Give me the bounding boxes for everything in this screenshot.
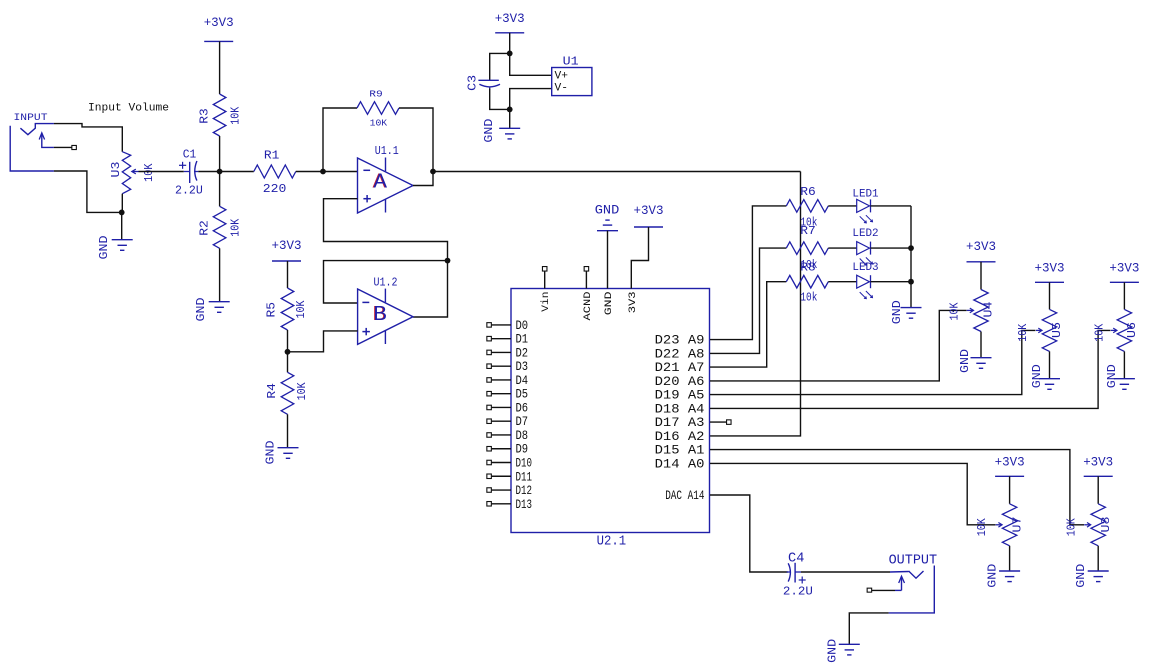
- svg-text:GND: GND: [98, 235, 111, 259]
- resistor R6 element: [786, 200, 828, 213]
- label R4 GND: [265, 440, 278, 464]
- resistor R7 element: [786, 242, 828, 255]
- wire input tip to pot: [54, 124, 122, 152]
- wire pin D5: [492, 393, 511, 395]
- power +3V3 above U5: [1035, 262, 1065, 283]
- label U1 V+ pin: [555, 70, 569, 82]
- label U3 name: [110, 161, 123, 177]
- svg-text:GND: GND: [265, 440, 278, 464]
- svg-text:GND: GND: [1031, 364, 1044, 388]
- label R5 name: [266, 302, 279, 318]
- svg-text:D23 A9: D23 A9: [655, 333, 705, 348]
- wire B inverting feedback: [324, 261, 448, 303]
- pin square input switch: [72, 145, 77, 149]
- diode LED3 element: [857, 275, 873, 299]
- label R4 value 10K: [296, 382, 309, 400]
- label pin D16 A2: [655, 429, 705, 444]
- label pin D22 A8: [655, 346, 705, 361]
- label pin D18 A4: [655, 401, 705, 416]
- power +3V3 above R3: [204, 16, 234, 41]
- ground U7 GND symbol: [999, 571, 1020, 582]
- svg-text:R4: R4: [266, 383, 279, 399]
- svg-text:V+: V+: [555, 70, 569, 82]
- svg-text:INPUT: INPUT: [14, 112, 48, 124]
- power +3V3 above ic: [634, 204, 664, 227]
- svg-text:D4: D4: [516, 373, 529, 388]
- svg-text:R5: R5: [266, 302, 279, 318]
- wire 3V3 to U6: [1123, 282, 1125, 309]
- connector J2 OUTPUT label: [889, 554, 938, 569]
- wire pin D1: [492, 338, 511, 340]
- label opamp B letter: [373, 302, 387, 325]
- ic GND symbol above: [597, 220, 618, 231]
- pin square D5: [487, 391, 492, 396]
- svg-text:U1.2: U1.2: [374, 277, 398, 290]
- label pin D13: [516, 497, 533, 512]
- label U2.1 designator: [597, 535, 627, 550]
- svg-text:3V3: 3V3: [627, 292, 639, 314]
- connector J1 INPUT label: [14, 112, 48, 124]
- capacitor C4 element: [787, 563, 806, 584]
- label pin D10: [516, 456, 533, 471]
- svg-text:D5: D5: [516, 387, 529, 402]
- resistor R2 element: [213, 206, 226, 248]
- wire U4 to ground: [980, 332, 982, 358]
- pin square D10: [487, 460, 492, 465]
- label pin D11: [516, 469, 533, 484]
- wire ic GND pin: [607, 231, 609, 289]
- wire R7 to LED2: [828, 247, 856, 249]
- label U6 name: [1126, 322, 1139, 338]
- label R2 GND: [195, 297, 208, 321]
- svg-text:D6: D6: [516, 400, 529, 415]
- wire R8 to LED3: [828, 281, 856, 283]
- svg-text:+3V3: +3V3: [1083, 456, 1113, 470]
- label R3 value 10K: [229, 107, 242, 125]
- label pin D15 A1: [655, 443, 705, 458]
- pin square D8: [487, 433, 492, 438]
- wire V+ pin: [510, 53, 552, 75]
- label Vin pin: [540, 292, 552, 312]
- svg-text:+3V3: +3V3: [634, 204, 664, 218]
- power +3V3 above U8: [1083, 456, 1113, 477]
- svg-text:R3: R3: [199, 108, 212, 124]
- wire pin D7: [492, 420, 511, 422]
- wire pin D6: [492, 406, 511, 408]
- wire R9 right vertical: [399, 108, 433, 172]
- svg-text:2.2U: 2.2U: [175, 185, 203, 198]
- svg-text:D19 A5: D19 A5: [655, 388, 705, 403]
- svg-text:R9: R9: [369, 90, 383, 100]
- ground input GND symbol: [112, 240, 133, 251]
- ground R4 GND symbol: [278, 448, 299, 459]
- potentiometer U6 wiper arrow: [1111, 328, 1117, 333]
- pin square D3: [487, 364, 492, 369]
- svg-text:U2.1: U2.1: [597, 535, 627, 550]
- label pin D20 A6: [655, 374, 705, 389]
- svg-text:D13: D13: [516, 497, 533, 512]
- wire Vin pin: [544, 271, 546, 288]
- wire pot U3 bottom: [121, 194, 123, 213]
- capacitor C4 label: [788, 551, 804, 566]
- wire pin D8: [492, 434, 511, 436]
- wire B output feedback vertical: [413, 261, 448, 317]
- svg-text:LED3: LED3: [852, 262, 878, 274]
- ground U5 GND symbol: [1039, 379, 1060, 390]
- svg-text:+3V3: +3V3: [495, 12, 525, 26]
- svg-text:D7: D7: [516, 414, 529, 429]
- ground C3 GND symbol: [499, 128, 520, 139]
- wire A1 to U8 wiper: [710, 450, 1084, 525]
- wire output sleeve to ground: [849, 613, 888, 644]
- label R6 name: [800, 186, 816, 199]
- wire LED cathode bus: [910, 206, 912, 308]
- label R3 name: [199, 108, 212, 124]
- pin square D7: [487, 419, 492, 424]
- wire input switch stub: [54, 146, 72, 148]
- wire pin D12: [492, 489, 511, 491]
- power +3V3 above R5: [272, 239, 302, 261]
- wire pin D2: [492, 351, 511, 353]
- svg-text:R7: R7: [800, 225, 816, 238]
- label U7 GND: [987, 564, 1000, 588]
- wire node to R2: [219, 172, 221, 207]
- wire U6 to ground: [1123, 351, 1125, 378]
- wire pin D10: [492, 462, 511, 464]
- svg-text:U4: U4: [983, 301, 996, 317]
- wire ACND pin: [585, 271, 587, 288]
- svg-text:10K: 10K: [1017, 324, 1030, 342]
- wire output switch stub: [872, 589, 902, 591]
- svg-text:U6: U6: [1126, 322, 1139, 338]
- svg-text:Vin: Vin: [540, 292, 552, 312]
- label R5 value 10K: [295, 300, 308, 318]
- potentiometer U6 element: [1117, 309, 1131, 351]
- label LED1 name: [852, 188, 879, 200]
- svg-text:U5: U5: [1051, 322, 1064, 338]
- potentiometer U4 wiper arrow: [967, 308, 974, 313]
- label pin D6: [516, 400, 529, 415]
- op-amp U1.1 triangle: [358, 158, 414, 214]
- op-amp U1.2 triangle: [358, 289, 413, 345]
- pin square D1: [487, 336, 492, 341]
- wire R2 to ground: [219, 248, 221, 301]
- svg-text:10K: 10K: [296, 382, 309, 400]
- capacitor C3 element: [478, 80, 500, 89]
- svg-text:10K: 10K: [143, 163, 156, 182]
- svg-text:GND: GND: [595, 204, 620, 218]
- wire U7 to ground: [1009, 546, 1011, 571]
- wire pin D13: [492, 503, 511, 505]
- resistor R8 element: [786, 275, 828, 288]
- pin square D13: [487, 502, 492, 507]
- wire A3 stub: [710, 421, 726, 423]
- label U4 value 10K: [949, 302, 962, 320]
- wire A6 to U4 wiper: [710, 310, 967, 381]
- potentiometer U4 element: [974, 290, 988, 332]
- wire pin D9: [492, 448, 511, 450]
- wire ic 3V3 pin: [631, 227, 648, 289]
- node C3 bottom junction: [507, 107, 513, 113]
- label pin D4: [516, 373, 529, 388]
- pin square Vin: [542, 267, 547, 272]
- potentiometer U3 element: [122, 152, 130, 194]
- svg-text:C4: C4: [788, 551, 804, 566]
- resistor R3 element: [213, 94, 226, 136]
- label pin D1: [516, 332, 529, 347]
- label pin D23 A9: [655, 333, 705, 348]
- label U1 V- pin: [555, 82, 569, 94]
- wire R4 to ground: [287, 414, 289, 447]
- svg-text:GND: GND: [959, 349, 972, 373]
- label U5 name: [1051, 322, 1064, 338]
- wire C3 node to ground: [509, 109, 511, 128]
- wire opamp A output: [413, 172, 433, 186]
- connector J1 input jack symbol: [10, 124, 54, 171]
- resistor R1 element: [254, 165, 296, 178]
- svg-text:D0: D0: [516, 318, 529, 333]
- svg-text:10K: 10K: [295, 300, 308, 318]
- text Input Volume heading: [88, 103, 169, 115]
- svg-text:GND: GND: [195, 297, 208, 321]
- label ic 3V3 pin name: [627, 292, 639, 314]
- label U3 value 10K: [143, 163, 156, 182]
- pin square D12: [487, 488, 492, 493]
- svg-text:R8: R8: [800, 261, 816, 274]
- label LED3 name: [852, 262, 878, 274]
- svg-text:10K: 10K: [229, 219, 242, 237]
- label R1 value 220: [263, 183, 287, 196]
- svg-text:+3V3: +3V3: [966, 240, 996, 254]
- label pin D7: [516, 414, 529, 429]
- svg-text:OUTPUT: OUTPUT: [889, 554, 938, 569]
- pin square D2: [487, 350, 492, 355]
- wire A4 to U6 wiper: [710, 330, 1111, 408]
- wire node to C3: [490, 53, 510, 80]
- svg-text:GND: GND: [603, 292, 615, 316]
- label R1 name: [264, 150, 280, 163]
- capacitor C1 element: [179, 161, 198, 183]
- label input GND: [98, 235, 111, 259]
- pin square D4: [487, 378, 492, 383]
- label ic GND pin name: [603, 292, 615, 316]
- wire pin D0: [492, 324, 511, 326]
- svg-text:D1: D1: [516, 332, 529, 347]
- node R1-R9-opamp junction: [320, 169, 326, 175]
- label R8 name: [800, 261, 816, 274]
- svg-text:GND: GND: [827, 639, 840, 663]
- diode LED1 element: [857, 199, 873, 223]
- pin square D6: [487, 405, 492, 410]
- svg-text:GND: GND: [1106, 364, 1119, 388]
- label C1 value 2.2U: [175, 185, 203, 198]
- ground output GND symbol: [839, 644, 860, 655]
- potentiometer U5 element: [1042, 309, 1056, 351]
- power +3V3 above U4: [966, 240, 996, 262]
- power block U1 box: [552, 68, 592, 96]
- potentiometer U3 wiper arrow: [132, 169, 139, 174]
- wire input sleeve to ground node: [54, 171, 122, 212]
- wire R6 to LED1: [828, 205, 856, 207]
- ground U8 GND symbol: [1088, 571, 1109, 582]
- wire pin D11: [492, 475, 511, 477]
- label pin D8: [516, 428, 529, 443]
- wire U8 to ground: [1097, 546, 1099, 571]
- svg-text:220: 220: [263, 183, 287, 196]
- svg-text:D9: D9: [516, 442, 529, 457]
- power +3V3 above C3: [495, 12, 525, 33]
- power +3V3 above U6: [1109, 262, 1139, 283]
- wire LED1 cathode to bus: [871, 205, 912, 207]
- svg-text:+3V3: +3V3: [204, 16, 234, 30]
- svg-text:A: A: [373, 170, 387, 193]
- wire node to R1: [220, 171, 254, 173]
- svg-text:D14 A0: D14 A0: [655, 456, 705, 471]
- wire R9 left vertical: [323, 108, 357, 172]
- label output GND: [827, 639, 840, 663]
- potentiometer U8 element: [1091, 504, 1105, 546]
- svg-text:10K: 10K: [1093, 324, 1106, 342]
- label pin D0: [516, 318, 529, 333]
- label pin D2: [516, 345, 529, 360]
- svg-text:D17 A3: D17 A3: [655, 415, 705, 430]
- label R2 name: [199, 220, 212, 236]
- wire A8 to R7: [710, 248, 786, 353]
- ground LED GND symbol: [901, 308, 922, 319]
- svg-text:10K: 10K: [1065, 518, 1078, 536]
- label R9 name: [369, 90, 383, 100]
- wire R5 to node: [287, 330, 289, 352]
- svg-text:R1: R1: [264, 150, 280, 163]
- potentiometer U5 wiper arrow: [1036, 328, 1042, 333]
- diode LED2 element: [857, 242, 873, 266]
- svg-text:D2: D2: [516, 345, 529, 360]
- label U6 value 10K: [1093, 324, 1106, 342]
- wire 3V3 to R3: [219, 41, 221, 94]
- label U8 value 10K: [1065, 518, 1078, 536]
- wire node to R4: [287, 352, 289, 373]
- label R7 value 10k: [800, 259, 817, 272]
- wire R1 to opamp input node: [296, 171, 323, 173]
- wire A7 to R8: [710, 282, 786, 367]
- svg-text:10k: 10k: [800, 292, 817, 305]
- label R7 name: [800, 225, 816, 238]
- resistor R4 element: [281, 372, 294, 414]
- svg-text:R6: R6: [800, 186, 816, 199]
- svg-text:10K: 10K: [229, 107, 242, 125]
- potentiometer U8 wiper arrow: [1084, 523, 1091, 528]
- label LED GND: [891, 300, 904, 324]
- label ic GND: [595, 204, 620, 218]
- capacitor C1 label: [183, 148, 197, 161]
- svg-text:U8: U8: [1100, 516, 1113, 532]
- svg-text:+3V3: +3V3: [272, 239, 302, 253]
- node input ground junction: [119, 210, 125, 216]
- wire 3V3 to U4: [980, 262, 982, 290]
- label opamp A letter: [373, 170, 388, 193]
- wire V- pin: [510, 89, 552, 110]
- label U4 name: [983, 301, 996, 317]
- label pin D5: [516, 387, 529, 402]
- label R6 value 10k: [800, 217, 817, 230]
- label ACND pin: [582, 292, 594, 321]
- wire audio row down to A2: [710, 172, 801, 436]
- svg-text:2.2U: 2.2U: [783, 585, 813, 598]
- pin square ACND: [584, 267, 589, 272]
- label C4 value 2.2U: [783, 585, 813, 598]
- label R4 name: [266, 383, 279, 399]
- wire opamp B noninverting path: [288, 331, 358, 352]
- label pin D19 A5: [655, 388, 705, 403]
- wire pin D3: [492, 365, 511, 367]
- svg-text:10K: 10K: [370, 119, 388, 129]
- label C3 GND: [483, 119, 496, 143]
- node R5-R4-opamp junction: [285, 349, 291, 355]
- connector J2 output jack symbol: [889, 566, 935, 613]
- wire 3V3 to R5: [287, 261, 289, 288]
- ground R2 GND symbol: [209, 302, 230, 313]
- svg-text:LED2: LED2: [852, 228, 878, 240]
- label U8 name: [1100, 516, 1113, 532]
- svg-text:Input Volume: Input Volume: [88, 103, 169, 115]
- wire R3 to node: [219, 136, 221, 172]
- svg-text:C1: C1: [183, 148, 197, 161]
- power +3V3 above U7: [995, 456, 1025, 477]
- wire 3V3 to C3 node: [509, 33, 511, 54]
- ground U6 GND symbol: [1114, 379, 1135, 390]
- svg-text:D21 A7: D21 A7: [655, 360, 705, 375]
- pin square D0: [487, 323, 492, 328]
- node LED3 cathode junction: [908, 279, 914, 285]
- label R9 value 10K: [370, 119, 388, 129]
- node C1-R3-R2-R1 junction: [217, 169, 223, 175]
- svg-text:B: B: [373, 302, 387, 325]
- svg-text:D15 A1: D15 A1: [655, 443, 705, 458]
- label U1.2 designator: [374, 277, 398, 290]
- svg-text:U1.1: U1.1: [375, 145, 399, 158]
- svg-text:GND: GND: [483, 119, 496, 143]
- wire opamp A output row: [433, 171, 801, 173]
- label U1.1 designator: [375, 145, 399, 158]
- label pin D21 A7: [655, 360, 705, 375]
- pin square output switch: [867, 588, 872, 592]
- pin square D9: [487, 446, 492, 451]
- svg-text:D8: D8: [516, 428, 529, 443]
- wire opamp A noninverting path: [324, 199, 448, 261]
- potentiometer U7 element: [1002, 504, 1016, 546]
- wire pot wiper to C1: [139, 171, 184, 173]
- svg-text:DAC A14: DAC A14: [665, 488, 704, 503]
- resistor R9 element: [357, 102, 399, 115]
- wire A0 to U7 wiper: [710, 463, 996, 524]
- label U7 name: [1012, 517, 1025, 533]
- label U7 value 10K: [976, 518, 989, 536]
- pin square A3: [727, 420, 732, 425]
- wire A5 to U5 wiper: [710, 330, 1036, 394]
- node LED2 cathode junction: [908, 245, 914, 251]
- svg-text:GND: GND: [891, 300, 904, 324]
- label R8 value 10k: [800, 292, 817, 305]
- label pin DAC A14: [665, 488, 704, 503]
- wire C1 to node: [198, 171, 219, 173]
- label U8 GND: [1075, 564, 1088, 588]
- label U5 value 10K: [1017, 324, 1030, 342]
- capacitor C3 label: [466, 75, 479, 91]
- wire pin D4: [492, 379, 511, 381]
- svg-text:10K: 10K: [949, 302, 962, 320]
- label U6 GND: [1106, 364, 1119, 388]
- label U1 designator: [563, 55, 579, 68]
